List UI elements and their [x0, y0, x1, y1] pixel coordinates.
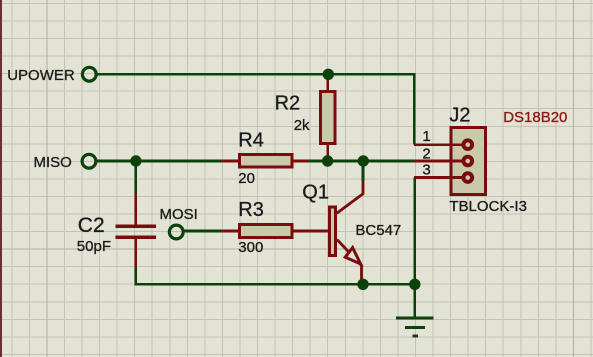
svg-text:1: 1	[422, 128, 430, 145]
svg-text:DS18B20: DS18B20	[503, 109, 567, 126]
svg-text:R2: R2	[275, 93, 301, 115]
svg-text:R4: R4	[238, 129, 264, 151]
svg-text:BC547: BC547	[355, 222, 401, 239]
svg-text:2k: 2k	[294, 117, 310, 134]
svg-text:300: 300	[238, 239, 263, 256]
svg-text:J2: J2	[449, 105, 470, 127]
svg-text:TBLOCK-I3: TBLOCK-I3	[449, 198, 527, 215]
svg-text:Q1: Q1	[302, 181, 329, 203]
svg-text:20: 20	[238, 170, 255, 187]
svg-text:2: 2	[422, 146, 430, 163]
svg-text:50pF: 50pF	[77, 238, 111, 255]
svg-text:3: 3	[422, 162, 430, 179]
svg-text:MISO: MISO	[34, 154, 72, 171]
svg-text:C2: C2	[78, 214, 105, 237]
svg-text:MOSI: MOSI	[160, 206, 198, 223]
svg-text:UPOWER: UPOWER	[7, 67, 75, 84]
svg-text:R3: R3	[238, 199, 264, 221]
